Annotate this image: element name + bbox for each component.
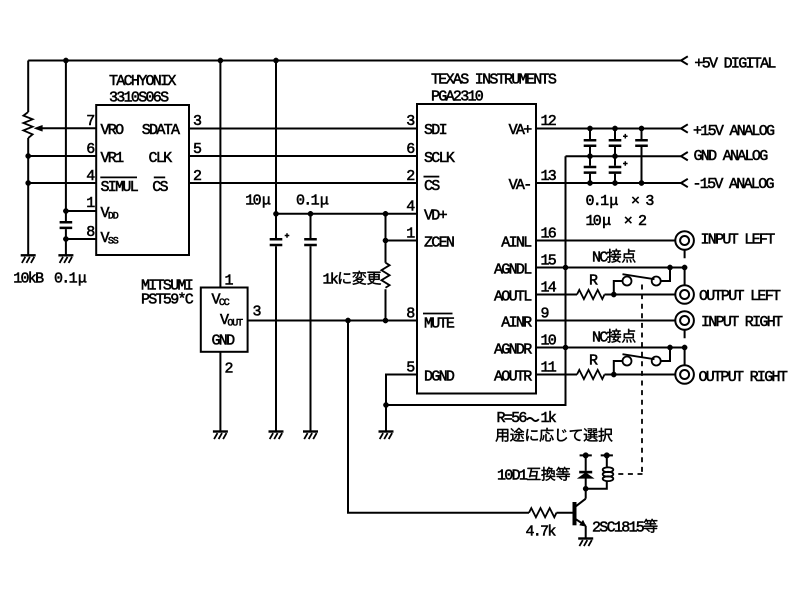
wire U3 GND to ground bbox=[219, 352, 221, 432]
junction rail-Vcc bbox=[218, 58, 223, 63]
svg-text:AINL: AINL bbox=[501, 235, 532, 252]
junction VD+ 10u bbox=[273, 211, 278, 216]
wire coil bottom bbox=[586, 481, 607, 489]
svg-text:VD+: VD+ bbox=[424, 208, 448, 225]
connector OUTPUT LEFT bbox=[675, 285, 694, 304]
svg-text:2: 2 bbox=[406, 168, 414, 185]
wire mute drop to base resistor bbox=[348, 321, 529, 513]
relay coil loops bbox=[603, 467, 614, 472]
connector OUTPUT RIGHT bbox=[675, 365, 694, 384]
wire AINR bbox=[536, 320, 675, 322]
resistor R right bbox=[577, 370, 604, 379]
D1 cathode bar bbox=[579, 471, 592, 474]
relay coil top terminal bbox=[601, 455, 613, 466]
switch right channel: lever bbox=[623, 354, 655, 359]
junction col3 top bbox=[639, 126, 644, 131]
svg-text:SCLK: SCLK bbox=[424, 150, 455, 167]
U2 CS overline bbox=[424, 176, 440, 178]
svg-text:7: 7 bbox=[86, 113, 94, 130]
wire CS-CS bbox=[189, 182, 417, 184]
switch left channel: right contact lead bbox=[661, 268, 670, 282]
svg-text:AOUTR: AOUTR bbox=[494, 369, 532, 386]
wire VOUT-MUTE bbox=[248, 320, 417, 322]
svg-text:OUTPUT RIGHT: OUTPUT RIGHT bbox=[699, 369, 788, 386]
wire AOUTR left bbox=[536, 374, 577, 376]
svg-text:2: 2 bbox=[225, 361, 233, 378]
svg-text:PST59*C: PST59*C bbox=[141, 292, 194, 309]
junction AGNDR switch bbox=[667, 345, 672, 350]
switch left channel: left contact lead bbox=[614, 281, 622, 295]
junction AGNDL conn bbox=[682, 265, 687, 270]
svg-text:-15V ANALOG: -15V ANALOG bbox=[693, 176, 775, 193]
wire MUTE (already drawn) / wire AGNDR bbox=[536, 347, 685, 349]
junction col3 bot bbox=[639, 180, 644, 185]
U1 CS overline bbox=[154, 176, 165, 178]
capacitor C bank col1 top bbox=[584, 140, 597, 146]
junction VSS bbox=[63, 236, 68, 241]
junction AGNDR bus bbox=[563, 345, 568, 350]
D1 triangle bbox=[579, 473, 592, 478]
svg-text:TEXAS INSTRUMENTS: TEXAS INSTRUMENTS bbox=[431, 72, 557, 89]
node GND ANALOG arrow bbox=[681, 152, 688, 160]
node +15V ANALOG arrow bbox=[681, 124, 688, 132]
wire C bank col1 bbox=[589, 129, 591, 184]
svg-text:TACHYONIX: TACHYONIX bbox=[109, 73, 176, 90]
svg-text:+5V DIGITAL: +5V DIGITAL bbox=[694, 56, 776, 73]
svg-text:ZCEN: ZCEN bbox=[424, 235, 454, 252]
wire VDD pin bbox=[66, 210, 96, 212]
wire AOUTR right bbox=[605, 374, 676, 376]
mechanical link dashed horizontal bbox=[617, 473, 643, 475]
connector INPUT RIGHT bbox=[675, 311, 694, 330]
potentiometer wiper arrow bbox=[34, 125, 42, 131]
svg-text:4.7k: 4.7k bbox=[526, 524, 557, 541]
wire C bank col3 bbox=[641, 129, 643, 184]
wire VD+ branch (rail down) bbox=[275, 61, 277, 239]
svg-text:CLK: CLK bbox=[149, 150, 173, 167]
junction 1k bottom bbox=[383, 318, 388, 323]
wire AOUTL right bbox=[605, 294, 676, 296]
wire VR1 bbox=[28, 155, 96, 157]
junction AGNDL bus bbox=[563, 265, 568, 270]
svg-text:VA-: VA- bbox=[509, 177, 531, 194]
svg-text:AGNDR: AGNDR bbox=[494, 342, 532, 359]
capacitor 10u bbox=[270, 239, 283, 245]
svg-text:VR1: VR1 bbox=[101, 150, 125, 167]
node +5V DIGITAL arrow bbox=[681, 56, 688, 64]
svg-text:PGA2310: PGA2310 bbox=[431, 88, 484, 105]
svg-text:0.1μ: 0.1μ bbox=[54, 270, 87, 287]
switch right channel: right contact bbox=[652, 357, 661, 366]
switch left channel: left contact bbox=[623, 277, 632, 286]
capacitor 0.1u VDD bbox=[60, 222, 73, 228]
wire input right gnd bbox=[684, 330, 686, 365]
transistor Q1 2SC1815 bbox=[573, 502, 577, 525]
wire DGND to AGND bus bbox=[386, 156, 566, 405]
capacitor C bank col2 top 10u bbox=[609, 140, 622, 146]
svg-text:OUTPUT LEFT: OUTPUT LEFT bbox=[699, 288, 781, 305]
wire +5V rail bbox=[28, 60, 681, 62]
Q1 emitter arrow bbox=[580, 520, 586, 526]
junction ZCEN bbox=[383, 238, 388, 243]
switch right channel: left contact lead bbox=[614, 361, 622, 375]
resistor R left bbox=[577, 290, 604, 299]
junction AGNDL switch bbox=[667, 265, 672, 270]
wire GND ANALOG rail bbox=[566, 155, 682, 157]
svg-text:VRO: VRO bbox=[101, 122, 125, 139]
junction AOUTR switch bbox=[611, 372, 616, 377]
ground U3 bbox=[213, 432, 228, 440]
svg-text:10D1: 10D1 bbox=[497, 468, 528, 485]
wire AGNDL bbox=[536, 267, 685, 269]
ground 10u bbox=[269, 432, 284, 440]
wire C bank col2 bbox=[614, 129, 616, 184]
wire input left gnd bbox=[684, 250, 686, 285]
capacitor C bank col3 bbox=[635, 140, 648, 146]
wire 0.1u to ground bbox=[310, 214, 312, 432]
ground DGND bbox=[379, 432, 394, 440]
wire 1k branch bbox=[385, 214, 387, 321]
resistor 4.7k bbox=[529, 508, 556, 517]
junction col1 bot bbox=[587, 180, 592, 185]
potentiometer 10kB bbox=[23, 112, 32, 138]
wire 10u to ground bbox=[275, 246, 277, 431]
wire D1 to collector junction bbox=[585, 478, 587, 489]
node -15V ANALOG arrow bbox=[681, 179, 688, 187]
U1 SIMUL overline bbox=[100, 176, 137, 178]
svg-text:CS: CS bbox=[152, 179, 168, 196]
wire CLK-SCLK bbox=[189, 155, 417, 157]
svg-text:NC: NC bbox=[592, 330, 608, 347]
switch left channel: lever bbox=[623, 274, 655, 279]
diode D1 10D1: top terminal bbox=[580, 455, 592, 471]
svg-text:INPUT RIGHT: INPUT RIGHT bbox=[701, 314, 783, 331]
junction VD+ 1k bbox=[383, 211, 388, 216]
svg-text:VA+: VA+ bbox=[509, 122, 533, 139]
svg-text:+15V ANALOG: +15V ANALOG bbox=[693, 123, 775, 140]
svg-text:INPUT LEFT: INPUT LEFT bbox=[701, 232, 776, 249]
wire VA- rail bbox=[536, 182, 681, 184]
svg-text:GND: GND bbox=[212, 333, 236, 350]
junction D1 top bbox=[583, 453, 589, 459]
junction rail-VD+ bbox=[273, 58, 278, 63]
svg-text:10μ: 10μ bbox=[245, 193, 271, 210]
ground VSS bbox=[58, 255, 73, 263]
svg-text:AINR: AINR bbox=[501, 315, 532, 332]
svg-text:1k: 1k bbox=[541, 410, 557, 427]
wire collector bbox=[585, 489, 587, 499]
junction DGND bbox=[383, 402, 388, 407]
capacitor C bank col2 bottom 10u bbox=[609, 167, 622, 173]
junction VDD bbox=[63, 208, 68, 213]
ground 0.1u bbox=[303, 432, 318, 440]
junction VR1-pot bbox=[26, 153, 31, 158]
IC U3 MITSUMI PST59*C box bbox=[201, 288, 248, 352]
svg-text:12: 12 bbox=[541, 113, 556, 130]
wire AOUTL left bbox=[536, 294, 577, 296]
svg-text:AGNDL: AGNDL bbox=[494, 262, 532, 279]
wire VD+ row bbox=[276, 213, 417, 215]
svg-text:3310S06S: 3310S06S bbox=[109, 89, 169, 106]
IC U2 TEXAS INSTRUMENTS PGA2310 box bbox=[417, 104, 536, 394]
junction col1 mid bbox=[587, 154, 592, 159]
wire SDATA-SDI bbox=[189, 128, 417, 130]
wire Vcc branch (rail to U3) bbox=[219, 61, 221, 288]
junction AOUTL switch bbox=[611, 292, 616, 297]
junction col2 mid bbox=[612, 154, 617, 159]
junction VD+ 0.1u bbox=[308, 211, 313, 216]
IC U1 TACHYONIX 3310S06S box bbox=[96, 105, 189, 255]
svg-text:DGND: DGND bbox=[424, 369, 455, 386]
switch left channel: right contact bbox=[652, 277, 661, 286]
ground pot bbox=[21, 255, 36, 263]
junction rail-VDD bbox=[63, 58, 68, 63]
ground Q1 emitter bbox=[578, 539, 593, 547]
junction AGNDR conn bbox=[682, 345, 687, 350]
svg-text:GND ANALOG: GND ANALOG bbox=[694, 148, 769, 165]
svg-text:NC: NC bbox=[592, 250, 608, 267]
capacitor 0.1u VD+ bbox=[304, 239, 317, 245]
wire emitter to ground bbox=[585, 526, 587, 539]
wire VRO to pot wiper bbox=[42, 127, 97, 129]
junction mute drop bbox=[345, 318, 350, 323]
svg-text:MUTE: MUTE bbox=[424, 316, 455, 333]
svg-text:SDATA: SDATA bbox=[142, 122, 180, 139]
wire pot branch (rail to ground) bbox=[27, 61, 29, 256]
wire base bbox=[557, 512, 573, 514]
U2 MUTE overline bbox=[423, 313, 453, 315]
svg-text:10kB: 10kB bbox=[13, 270, 44, 287]
svg-text:SDI: SDI bbox=[424, 122, 447, 139]
capacitor C bank col1 bottom bbox=[584, 167, 597, 173]
svg-text:0.1μ: 0.1μ bbox=[296, 193, 329, 210]
connector INPUT LEFT bbox=[675, 231, 694, 250]
switch right channel: left contact bbox=[623, 357, 632, 366]
junction D1 bottom bbox=[583, 486, 588, 491]
svg-text:AOUTL: AOUTL bbox=[494, 289, 532, 306]
resistor 1k (vertical) bbox=[381, 263, 389, 288]
wire VDD branch (rail down) bbox=[65, 61, 67, 256]
wire VSS pin bbox=[66, 238, 96, 240]
junction coil top bbox=[604, 453, 610, 459]
junction col1 top bbox=[587, 126, 592, 131]
wire ZCEN bbox=[386, 240, 418, 242]
label + col2 top bbox=[623, 134, 628, 139]
label youto ni oujite sentaku bbox=[495, 428, 612, 442]
switch right channel: right contact lead bbox=[661, 348, 670, 362]
wire AINL bbox=[536, 240, 675, 242]
junction col2 bot bbox=[612, 180, 617, 185]
wire SIMUL bbox=[28, 182, 96, 184]
wire DGND bbox=[386, 375, 417, 432]
junction SIMUL-pot bbox=[26, 180, 31, 185]
svg-text:1k: 1k bbox=[323, 272, 339, 289]
svg-text:2SC1815: 2SC1815 bbox=[592, 520, 645, 537]
label + col2 bottom bbox=[623, 161, 628, 166]
junction col2 top bbox=[612, 126, 617, 131]
wire VA+ rail bbox=[536, 128, 681, 130]
svg-text:SIMUL: SIMUL bbox=[101, 179, 139, 196]
svg-text:CS: CS bbox=[424, 178, 440, 195]
svg-text:R=56: R=56 bbox=[497, 410, 528, 427]
mechanical link dashed vertical bbox=[641, 285, 643, 475]
label + 10u bbox=[285, 233, 290, 238]
